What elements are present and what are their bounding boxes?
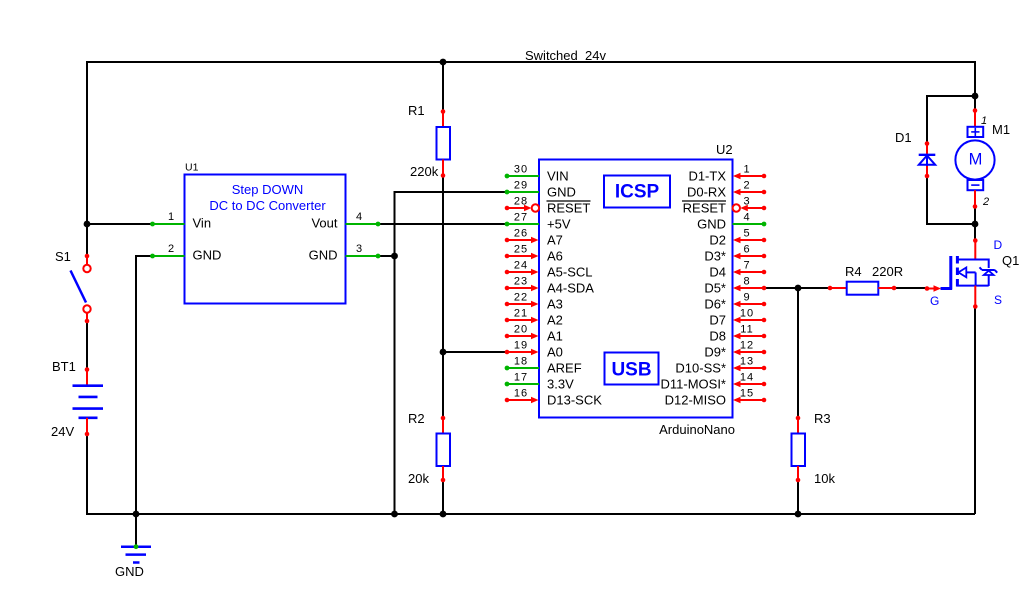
U2 pin 8 D5*	[704, 276, 766, 296]
svg-text:22: 22	[514, 292, 528, 304]
svg-text:24V: 24V	[51, 424, 74, 439]
svg-text:GND: GND	[697, 217, 726, 232]
svg-text:R2: R2	[408, 411, 425, 426]
svg-text:2: 2	[743, 180, 750, 192]
junction bottom bus / R3	[795, 511, 802, 518]
svg-text:D10-SS*: D10-SS*	[675, 361, 726, 376]
svg-text:+5V: +5V	[547, 217, 571, 232]
U2 pin 29 GND	[505, 180, 576, 200]
svg-text:3: 3	[743, 196, 750, 208]
transistor Q1 N-MOSFET	[925, 238, 998, 309]
svg-text:D1: D1	[895, 130, 912, 145]
wire top bus Switched_24v	[87, 61, 975, 63]
U2 pin 3 RESET	[682, 196, 766, 216]
switch S1	[71, 254, 91, 324]
USB box	[605, 353, 659, 385]
U1 pin 4 Vout	[311, 211, 380, 231]
svg-text:R3: R3	[814, 411, 831, 426]
ground	[121, 544, 151, 562]
resistor R3	[792, 416, 806, 483]
svg-text:U1: U1	[185, 162, 199, 174]
wire U1 pin 2 GND horizontal	[136, 255, 153, 257]
svg-text:9: 9	[743, 292, 750, 304]
svg-text:Q1: Q1	[1002, 253, 1019, 268]
svg-text:GND: GND	[547, 185, 576, 200]
svg-text:15: 15	[740, 388, 754, 400]
svg-text:14: 14	[740, 372, 754, 384]
U2 pin 21 A2	[505, 308, 563, 328]
svg-text:D4: D4	[709, 265, 726, 280]
op-amp U1 Step DOWN DC to DC Converter box	[185, 175, 346, 304]
U2 pin 22 A3	[505, 292, 563, 312]
svg-text:BT1: BT1	[52, 359, 76, 374]
svg-text:R4: R4	[845, 264, 862, 279]
svg-text:16: 16	[514, 388, 528, 400]
U2 pin 26 A7	[505, 228, 563, 248]
svg-text:27: 27	[514, 212, 528, 224]
wire A0 tap	[443, 351, 507, 353]
svg-text:23: 23	[514, 276, 528, 288]
svg-text:S1: S1	[55, 249, 71, 264]
svg-text:D: D	[994, 238, 1003, 252]
junction bottom bus / GND net	[391, 511, 398, 518]
junction left bus / Vin	[84, 221, 91, 228]
U2 pin 23 A4-SDA	[505, 276, 595, 296]
svg-text:17: 17	[514, 372, 528, 384]
junction right bus / D1 bottom	[972, 221, 979, 228]
svg-text:20: 20	[514, 324, 528, 336]
wire right bus top	[974, 61, 976, 111]
svg-text:GND: GND	[193, 248, 222, 263]
op-amp U2 ArduinoNano box	[539, 160, 733, 418]
svg-text:RESET: RESET	[683, 201, 726, 216]
svg-text:5: 5	[743, 228, 750, 240]
U2 pin 11 D8	[709, 324, 766, 344]
svg-text:Step DOWN: Step DOWN	[232, 182, 304, 197]
junction right bus / D1 top	[972, 93, 979, 100]
U2 pin 6 D3*	[704, 244, 766, 264]
wire U2 pin 29 GND	[395, 191, 508, 193]
svg-text:12: 12	[740, 340, 754, 352]
junction divider / A0	[440, 349, 447, 356]
svg-text:19: 19	[514, 340, 528, 352]
svg-text:A5-SCL: A5-SCL	[547, 265, 593, 280]
svg-text:GND: GND	[309, 248, 338, 263]
svg-text:25: 25	[514, 244, 528, 256]
U2 pin 27 +5V	[505, 212, 571, 232]
svg-text:D5*: D5*	[704, 281, 726, 296]
svg-text:GND: GND	[115, 564, 144, 579]
svg-text:D9*: D9*	[704, 345, 726, 360]
wire bottom bus	[86, 513, 975, 515]
svg-text:21: 21	[514, 308, 528, 320]
wire M1 bottom to D1 node	[974, 206, 976, 241]
U2 pin 19 A0	[505, 340, 563, 360]
svg-text:D7: D7	[709, 313, 726, 328]
U2 pin 1 D1-TX	[688, 164, 766, 184]
svg-text:D2: D2	[709, 233, 726, 248]
U2 pin 28 RESET	[505, 196, 591, 216]
U2 pin 13 D10-SS*	[675, 356, 766, 376]
svg-text:Switched_24v: Switched_24v	[525, 48, 606, 63]
U2 pin 12 D9*	[704, 340, 766, 360]
svg-text:USB: USB	[611, 360, 651, 381]
wire left bus from top to S1	[86, 61, 88, 256]
svg-text:24: 24	[514, 260, 528, 272]
svg-text:3: 3	[356, 243, 362, 255]
svg-text:R1: R1	[408, 103, 425, 118]
U2 pin 4 GND	[697, 212, 766, 232]
junction bottom bus / R2	[440, 511, 447, 518]
diode D1	[919, 141, 936, 178]
svg-text:D0-RX: D0-RX	[687, 185, 726, 200]
svg-text:26: 26	[514, 228, 528, 240]
wire Q1 source to bottom bus	[974, 306, 976, 514]
U2 pin 20 A1	[505, 324, 563, 344]
svg-text:1: 1	[981, 115, 987, 127]
resistor R4	[828, 282, 897, 295]
svg-text:D12-MISO: D12-MISO	[665, 393, 726, 408]
junction D5 wire / R3	[795, 285, 802, 292]
svg-text:A2: A2	[547, 313, 563, 328]
junction bottom bus / U1 GND	[133, 511, 140, 518]
U2 pin 30 VIN	[505, 164, 569, 184]
svg-text:M1: M1	[992, 122, 1010, 137]
svg-text:11: 11	[740, 324, 753, 336]
svg-text:A6: A6	[547, 249, 563, 264]
svg-text:ArduinoNano: ArduinoNano	[659, 422, 735, 437]
svg-text:A0: A0	[547, 345, 563, 360]
wire D1 branch top horizontal	[926, 95, 975, 97]
svg-text:4: 4	[356, 211, 362, 223]
wire U1 pin 2 GND vertical	[135, 255, 137, 514]
svg-text:VIN: VIN	[547, 169, 569, 184]
motor M1	[955, 108, 994, 209]
ICSP box	[604, 176, 670, 208]
wire divider middle segment	[442, 176, 444, 418]
svg-text:1: 1	[168, 211, 174, 223]
svg-text:220R: 220R	[872, 264, 903, 279]
wire BT1 to bottom bus	[86, 434, 88, 515]
wire ground stub	[135, 514, 137, 547]
wire D1 branch bottom horizontal	[927, 223, 975, 225]
battery BT1	[73, 367, 104, 436]
wire R3 branch vertical	[797, 288, 799, 418]
svg-text:D8: D8	[709, 329, 726, 344]
svg-text:A4-SDA: A4-SDA	[547, 281, 594, 296]
U1 pin 2 GND	[150, 243, 221, 263]
wire Vin tap to U1 pin 1	[87, 223, 153, 225]
U2 pin 18 AREF	[505, 356, 582, 376]
svg-text:A3: A3	[547, 297, 563, 312]
U2 pin 14 D11-MOSI*	[661, 372, 767, 392]
svg-text:AREF: AREF	[547, 361, 582, 376]
wire Vout to +5V	[378, 223, 507, 225]
svg-text:A1: A1	[547, 329, 563, 344]
svg-text:D3*: D3*	[704, 249, 726, 264]
svg-text:30: 30	[514, 164, 528, 176]
svg-text:3.3V: 3.3V	[547, 377, 574, 392]
svg-text:20k: 20k	[408, 471, 429, 486]
resistor R2	[437, 416, 451, 483]
svg-text:D6*: D6*	[704, 297, 726, 312]
U2 pin 17 3.3V	[505, 372, 574, 392]
wire R3 to bottom bus	[797, 480, 799, 514]
svg-text:18: 18	[514, 356, 528, 368]
U2 pin 2 D0-RX	[687, 180, 766, 200]
U2 pin 9 D6*	[704, 292, 766, 312]
svg-text:Vout: Vout	[311, 216, 337, 231]
wire divider bottom segment	[442, 480, 444, 514]
svg-text:29: 29	[514, 180, 528, 192]
svg-text:RESET: RESET	[547, 201, 590, 216]
svg-text:D11-MOSI*: D11-MOSI*	[661, 377, 727, 392]
wire S1 to BT1	[86, 321, 88, 370]
wire divider top segment	[442, 62, 444, 112]
svg-text:2: 2	[982, 196, 989, 208]
U2 pin 25 A6	[505, 244, 563, 264]
U2 pin 16 D13-SCK	[505, 388, 603, 408]
svg-text:10: 10	[740, 308, 754, 320]
wire GND net vertical	[394, 191, 396, 514]
wire D1 branch top vertical	[926, 95, 928, 144]
svg-text:A7: A7	[547, 233, 563, 248]
svg-text:4: 4	[743, 212, 750, 224]
svg-text:7: 7	[743, 260, 750, 272]
svg-text:220k: 220k	[410, 164, 439, 179]
svg-text:28: 28	[514, 196, 528, 208]
U1 pin 3 GND	[309, 243, 381, 263]
resistor R1	[437, 109, 451, 178]
svg-text:M: M	[969, 150, 983, 168]
wire D1 branch bottom vertical	[926, 176, 928, 225]
junction GND net / U1 pin3	[391, 253, 398, 260]
wire U2 pin 8 to R4	[764, 287, 830, 289]
svg-text:S: S	[994, 293, 1002, 307]
svg-text:DC to DC Converter: DC to DC Converter	[209, 198, 326, 213]
svg-text:U2: U2	[716, 142, 733, 157]
svg-text:G: G	[930, 294, 939, 308]
U2 pin 10 D7	[709, 308, 766, 328]
junction top bus / R1	[440, 59, 447, 66]
svg-text:6: 6	[743, 244, 750, 256]
svg-text:ICSP: ICSP	[615, 182, 660, 203]
svg-text:Vin: Vin	[193, 216, 212, 231]
svg-text:D1-TX: D1-TX	[688, 169, 726, 184]
wire U1 pin 3 to GND net	[378, 255, 395, 257]
U2 pin 24 A5-SCL	[505, 260, 593, 280]
svg-text:10k: 10k	[814, 471, 835, 486]
svg-text:2: 2	[168, 243, 174, 255]
U2 pin 5 D2	[709, 228, 766, 248]
svg-text:13: 13	[740, 356, 754, 368]
wire R4 to Q1 gate	[894, 287, 927, 289]
svg-text:1: 1	[743, 164, 750, 176]
U2 pin 7 D4	[709, 260, 766, 280]
U1 pin 1 Vin	[150, 211, 211, 231]
svg-text:8: 8	[743, 276, 750, 288]
U2 pin 15 D12-MISO	[665, 388, 767, 408]
svg-text:D13-SCK: D13-SCK	[547, 393, 602, 408]
